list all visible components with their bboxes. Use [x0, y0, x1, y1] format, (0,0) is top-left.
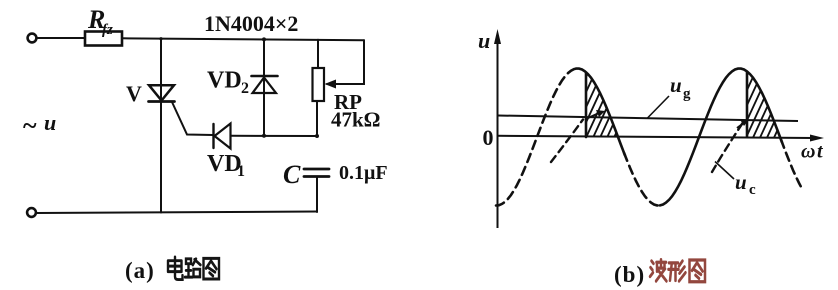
RP top lead [317, 40, 319, 68]
svg-text:fz: fz [102, 22, 113, 38]
svg-text:u: u [670, 73, 682, 97]
hatch hump1 [556, 64, 655, 142]
bottom wire [36, 212, 317, 214]
caption boxingtu hand-drawn red [650, 260, 705, 282]
diode VD2 [252, 75, 278, 78]
axis horizontal wt [497, 136, 815, 138]
svg-text:1N4004×2: 1N4004×2 [204, 11, 298, 36]
wire: cathode down [160, 102, 162, 213]
curve u2 dashed rise [496, 69, 578, 206]
diode VD1 [212, 124, 214, 148]
uc dashed segment 1 [551, 120, 583, 163]
svg-text:c: c [749, 182, 756, 198]
curve dashed to min [624, 153, 661, 206]
waveform curve solid/dashed [496, 69, 801, 206]
firing line 2 [746, 72, 749, 137]
wire: thyristor branch vertical [160, 39, 162, 85]
svg-text:0: 0 [483, 125, 494, 150]
svg-text:47kΩ: 47kΩ [331, 108, 381, 132]
curve dashed tail [781, 140, 801, 187]
firing arrow 2 [737, 120, 749, 129]
svg-text:1: 1 [237, 163, 245, 180]
uc dashed segment 2 [712, 121, 744, 172]
svg-text:(a): (a) [125, 258, 155, 283]
terminal bottom-left [27, 208, 36, 217]
svg-text:~: ~ [23, 111, 37, 140]
axis arrowheads [494, 29, 501, 44]
ug level line [498, 116, 798, 122]
potentiometer RP body [313, 68, 325, 101]
terminal top-left [28, 34, 37, 43]
diode VD2 branch vertical [263, 39, 265, 135]
svg-text:C: C [283, 160, 301, 189]
potentiometer RP wiper arrow [327, 83, 337, 85]
ug pointer [648, 96, 670, 118]
svg-text:0.1μF: 0.1μF [339, 162, 388, 184]
caption dianlutu hand-drawn [168, 257, 219, 280]
svg-text:ωt: ωt [801, 141, 824, 163]
wire right loop corner down to wiper [337, 40, 364, 84]
svg-text:g: g [683, 86, 691, 102]
resistor Rfz [85, 32, 122, 46]
firing line 1 [585, 73, 588, 138]
svg-text:u: u [44, 110, 56, 135]
curve hump1 solid [576, 69, 625, 156]
capacitor C [304, 168, 329, 171]
svg-text:u: u [735, 170, 747, 194]
uc pointer [715, 162, 734, 180]
thyristor V gate lead [172, 102, 213, 135]
svg-text:2: 2 [241, 80, 249, 97]
junction dots [159, 37, 319, 138]
RP bottom lead [316, 101, 318, 136]
thyristor V [149, 85, 174, 100]
svg-text:V: V [126, 81, 142, 106]
svg-text:VD: VD [207, 68, 242, 94]
hatch hump2 [716, 64, 815, 142]
svg-text:u: u [478, 28, 490, 53]
firing arrow 1 [588, 110, 605, 118]
wire VD1 to C/RP node [231, 135, 317, 137]
curve hump2 solid [660, 69, 782, 206]
axis u vertical [497, 42, 499, 228]
wire top run [122, 38, 364, 40]
wire top left [37, 37, 86, 39]
svg-text:(b): (b) [614, 262, 645, 287]
